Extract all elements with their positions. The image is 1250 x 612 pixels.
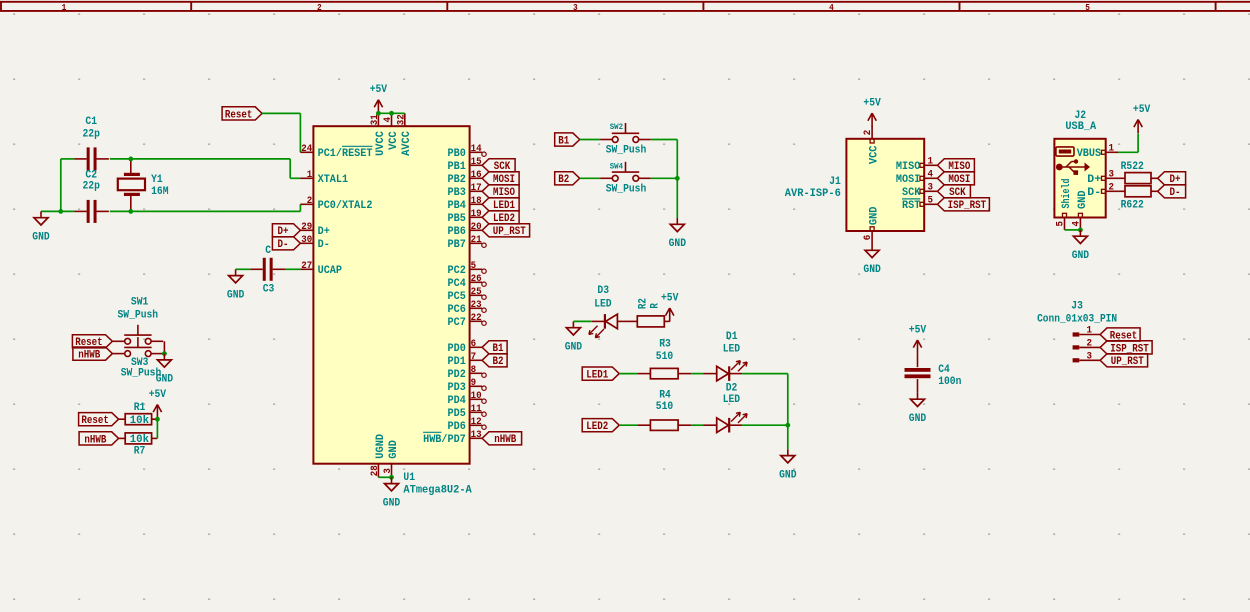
svg-text:SW_Push: SW_Push — [606, 145, 647, 157]
svg-text:UP_RST: UP_RST — [493, 226, 526, 238]
svg-text:HWB/PD7: HWB/PD7 — [423, 434, 466, 446]
svg-text:SW1: SW1 — [131, 296, 149, 308]
svg-text:PD6: PD6 — [448, 421, 466, 433]
svg-text:ISP_RST: ISP_RST — [948, 200, 987, 212]
svg-text:510: 510 — [656, 401, 673, 413]
pin 8 PD2 — [448, 365, 487, 381]
pin 30 D- — [300, 235, 329, 251]
wire — [580, 139, 601, 141]
wire — [691, 373, 703, 375]
svg-text:R: R — [650, 303, 662, 309]
wire — [290, 177, 300, 179]
pin 5 PC2 — [448, 261, 487, 277]
svg-text:15: 15 — [471, 157, 482, 168]
wire — [378, 112, 404, 114]
svg-text:19: 19 — [471, 209, 482, 220]
connector J1 AVR-ISP-6 body — [785, 139, 924, 231]
wire — [1118, 151, 1138, 153]
pin 1 XTAL1 — [300, 170, 348, 186]
pin 20 PB6 — [448, 222, 483, 238]
svg-text:1: 1 — [1087, 326, 1093, 337]
svg-text:R2: R2 — [638, 298, 650, 309]
ground SW — [156, 354, 174, 386]
svg-text:J1: J1 — [829, 176, 841, 188]
label D- — [1158, 185, 1186, 200]
svg-text:MISO: MISO — [896, 161, 921, 173]
label UP_RST — [482, 224, 529, 239]
svg-text:26: 26 — [471, 274, 482, 285]
switch SW2 — [600, 123, 651, 157]
svg-text:+5V: +5V — [661, 293, 679, 305]
wire — [742, 373, 788, 375]
svg-text:GND: GND — [388, 440, 400, 459]
svg-text:J3: J3 — [1071, 301, 1083, 313]
svg-text:XTAL1: XTAL1 — [318, 174, 349, 186]
resistor R7 — [119, 433, 158, 458]
power +5V R2 — [661, 293, 679, 322]
label Reset — [79, 413, 119, 428]
svg-text:SW_Push: SW_Push — [606, 184, 647, 196]
svg-text:GND: GND — [779, 469, 797, 481]
pin 17 PB3 — [448, 183, 483, 199]
USB plug icon — [1056, 147, 1074, 156]
svg-text:+5V: +5V — [909, 325, 927, 337]
label B2 — [482, 354, 507, 369]
svg-text:2: 2 — [307, 196, 313, 207]
svg-text:B2: B2 — [558, 174, 569, 186]
svg-text:D+: D+ — [318, 226, 331, 238]
svg-text:5: 5 — [1056, 221, 1067, 227]
label MOSI — [937, 172, 974, 187]
pin 15 PB1 — [448, 157, 483, 173]
svg-text:C3: C3 — [263, 284, 275, 296]
ground — [32, 211, 50, 243]
pin 3 J3 — [1073, 351, 1101, 362]
pin 2 D- — [1087, 182, 1118, 199]
wire — [630, 320, 637, 322]
svg-text:PD4: PD4 — [448, 395, 467, 407]
svg-text:28: 28 — [370, 465, 381, 476]
junction — [58, 209, 63, 214]
svg-text:nHWB: nHWB — [78, 350, 100, 362]
svg-text:22: 22 — [471, 313, 482, 324]
svg-text:AVR-ISP-6: AVR-ISP-6 — [785, 188, 841, 200]
capacitor C2 — [87, 200, 90, 223]
svg-text:4: 4 — [829, 3, 834, 13]
svg-text:R7: R7 — [134, 446, 146, 458]
wire — [378, 476, 391, 478]
svg-text:LED: LED — [723, 343, 741, 355]
svg-text:PB4: PB4 — [448, 200, 467, 212]
svg-text:LED2: LED2 — [586, 421, 608, 433]
svg-text:10: 10 — [471, 391, 482, 402]
crystal Y1 — [118, 159, 169, 212]
wire — [110, 210, 301, 212]
pin 2 PC0/XTAL2 — [300, 196, 372, 212]
svg-text:3: 3 — [1109, 169, 1115, 180]
svg-text:MOSI: MOSI — [896, 174, 920, 186]
svg-text:PC5: PC5 — [448, 291, 467, 303]
svg-text:21: 21 — [471, 235, 482, 246]
wire — [156, 419, 158, 438]
resistor R5 — [1118, 161, 1157, 183]
wire — [262, 112, 300, 114]
label UP_RST — [1100, 354, 1148, 369]
svg-text:7: 7 — [471, 352, 477, 363]
svg-text:8: 8 — [471, 365, 477, 376]
svg-text:Y1: Y1 — [151, 174, 163, 186]
svg-text:Reset: Reset — [225, 109, 253, 121]
svg-text:UVCC: UVCC — [375, 131, 387, 156]
svg-text:30: 30 — [301, 235, 312, 246]
label D+ — [1158, 172, 1186, 187]
svg-text:GND: GND — [32, 231, 50, 243]
wire — [651, 177, 678, 179]
wire — [651, 139, 678, 141]
junction — [1078, 228, 1083, 233]
svg-text:PB3: PB3 — [448, 187, 467, 199]
pin 6 GND — [863, 206, 881, 244]
wire — [41, 210, 74, 212]
pin 11 PD5 — [448, 404, 487, 420]
svg-text:6: 6 — [471, 339, 477, 350]
wire — [285, 268, 300, 270]
svg-text:GND: GND — [863, 264, 881, 276]
svg-text:PC1/RESET: PC1/RESET — [318, 148, 373, 160]
svg-text:11: 11 — [471, 404, 482, 415]
label D+ — [272, 224, 300, 239]
svg-text:PC6: PC6 — [448, 304, 466, 316]
svg-text:R1: R1 — [134, 402, 146, 414]
ground J2 — [1072, 230, 1090, 262]
label B1 — [482, 341, 507, 356]
pin 1 MISO — [896, 156, 937, 173]
svg-text:2: 2 — [1087, 338, 1093, 349]
svg-text:13: 13 — [471, 430, 482, 441]
junction — [785, 423, 790, 428]
svg-text:16M: 16M — [151, 186, 169, 198]
pin 9 PD3 — [448, 378, 487, 394]
wire — [299, 204, 301, 211]
junction — [675, 176, 680, 181]
svg-text:VBUS: VBUS — [1077, 148, 1102, 160]
svg-text:AVCC: AVCC — [401, 131, 413, 156]
svg-text:C1: C1 — [85, 116, 97, 128]
svg-text:GND: GND — [227, 289, 245, 301]
connector J2 USB_A body — [1054, 110, 1105, 217]
svg-text:GND: GND — [909, 413, 927, 425]
wire — [60, 159, 62, 212]
label MISO — [482, 185, 519, 200]
ground C4 — [909, 393, 927, 425]
pin 28 UGND — [370, 434, 387, 478]
label B2 — [555, 172, 580, 187]
pin 1 J3 — [1073, 326, 1101, 337]
label nHWB — [73, 347, 113, 362]
pin 4 GND — [1071, 190, 1089, 230]
pin 18 PB4 — [448, 196, 483, 212]
junction — [389, 111, 394, 116]
svg-text:GND: GND — [565, 341, 583, 353]
diode D1 LED — [704, 331, 748, 381]
pin 4 MOSI — [896, 169, 937, 186]
svg-text:U1: U1 — [403, 472, 415, 484]
svg-text:+5V: +5V — [863, 98, 881, 110]
pin 1 VBUS — [1077, 143, 1119, 160]
svg-text:23: 23 — [471, 300, 482, 311]
wire — [619, 373, 637, 375]
svg-text:2: 2 — [317, 3, 322, 13]
svg-text:PD0: PD0 — [448, 343, 466, 355]
power +5V R1 — [149, 389, 167, 418]
wire — [299, 113, 301, 152]
wire — [580, 177, 601, 179]
pin 3 GND — [383, 440, 400, 478]
power +5V C4 — [909, 325, 927, 354]
svg-text:SW_Push: SW_Push — [118, 310, 159, 322]
wire — [1137, 133, 1139, 152]
junction — [128, 209, 133, 214]
svg-text:PB5: PB5 — [448, 213, 467, 225]
svg-text:RST: RST — [902, 200, 921, 212]
pin 26 PC4 — [448, 274, 487, 290]
svg-text:Conn_01x03_PIN: Conn_01x03_PIN — [1037, 314, 1117, 326]
switch SW4 — [600, 162, 651, 196]
wire — [787, 374, 789, 450]
svg-text:ATmega8U2-A: ATmega8U2-A — [403, 484, 472, 496]
pin 29 D+ — [300, 222, 330, 238]
svg-text:LED: LED — [594, 298, 612, 310]
svg-text:31: 31 — [370, 114, 381, 125]
label ISP_RST — [937, 198, 989, 213]
pin 21 PB7 — [448, 235, 487, 251]
svg-text:1: 1 — [927, 156, 933, 167]
svg-text:GND: GND — [1077, 190, 1089, 209]
svg-text:D-: D- — [1087, 187, 1101, 199]
svg-text:PB0: PB0 — [448, 148, 466, 160]
wire — [619, 424, 637, 426]
svg-text:B2: B2 — [493, 356, 504, 368]
connector J3 Conn_01x03_PIN — [1037, 301, 1117, 326]
svg-text:GND: GND — [156, 374, 174, 386]
svg-text:R4: R4 — [659, 389, 671, 401]
svg-text:4: 4 — [927, 169, 933, 180]
svg-text:R522: R522 — [1121, 161, 1144, 173]
pin 12 PD6 — [448, 417, 487, 433]
svg-text:B1: B1 — [558, 135, 569, 147]
svg-text:Reset: Reset — [81, 415, 109, 427]
svg-text:UGND: UGND — [375, 434, 387, 459]
svg-text:D-: D- — [1170, 187, 1181, 199]
svg-text:PD5: PD5 — [448, 408, 467, 420]
svg-text:10k: 10k — [130, 434, 150, 446]
pin 25 PC5 — [448, 287, 487, 303]
label LED2 — [582, 419, 619, 434]
pin 7 PD1 — [448, 352, 483, 368]
capacitor C4 — [905, 354, 962, 393]
svg-text:4: 4 — [1071, 221, 1082, 227]
label Reset — [222, 107, 262, 122]
svg-text:2: 2 — [1109, 182, 1115, 193]
switch SW1 — [113, 296, 164, 344]
wire — [742, 424, 788, 426]
wire — [289, 159, 291, 178]
svg-text:PD3: PD3 — [448, 382, 467, 394]
svg-text:LED: LED — [723, 394, 741, 406]
wire — [110, 158, 290, 160]
label D- — [272, 237, 300, 252]
wire — [163, 341, 165, 353]
ground U1 — [383, 477, 401, 509]
svg-text:SCK: SCK — [902, 187, 921, 199]
svg-text:PB7: PB7 — [448, 239, 466, 251]
pin 19 PB5 — [448, 209, 483, 225]
svg-text:3: 3 — [927, 182, 933, 193]
svg-text:nHWB: nHWB — [494, 434, 516, 446]
resistor R2 — [637, 298, 669, 327]
wire — [573, 320, 592, 322]
switch SW3 — [113, 337, 164, 380]
svg-text:GND: GND — [1072, 250, 1090, 262]
pin 24 PC1/RESET — [300, 144, 372, 160]
svg-text:PB2: PB2 — [448, 174, 466, 186]
svg-text:SW4: SW4 — [610, 162, 623, 171]
pin 31 UVCC — [370, 113, 387, 156]
svg-text:32: 32 — [396, 114, 407, 125]
svg-text:D2: D2 — [726, 382, 738, 394]
pin 5 RST — [902, 195, 937, 212]
svg-text:VCC: VCC — [388, 131, 400, 150]
svg-text:R3: R3 — [659, 338, 671, 350]
resistor R1 — [119, 402, 158, 427]
svg-text:4: 4 — [383, 117, 394, 123]
label LED2 — [482, 211, 519, 226]
svg-text:+5V: +5V — [370, 84, 388, 96]
diode D2 LED — [704, 382, 748, 432]
svg-text:R622: R622 — [1121, 200, 1144, 212]
ground LEDs — [779, 449, 797, 481]
svg-text:Shield: Shield — [1061, 179, 1073, 209]
IC U1 ATmega8U2-A — [313, 126, 469, 464]
svg-text:C4: C4 — [938, 364, 950, 376]
svg-text:GND: GND — [669, 238, 687, 250]
svg-text:nHWB: nHWB — [84, 434, 106, 446]
capacitor C3 — [250, 245, 285, 295]
svg-text:24: 24 — [301, 144, 312, 155]
svg-text:C: C — [265, 245, 271, 257]
svg-text:+5V: +5V — [149, 389, 167, 401]
label nHWB — [482, 432, 521, 447]
label nHWB — [79, 432, 119, 447]
svg-text:12: 12 — [471, 417, 482, 428]
pin 16 PB2 — [448, 170, 483, 186]
svg-text:1: 1 — [62, 3, 67, 13]
svg-text:18: 18 — [471, 196, 482, 207]
svg-text:25: 25 — [471, 287, 482, 298]
svg-text:GND: GND — [869, 206, 881, 225]
label MOSI — [482, 172, 519, 187]
USB trident icon — [1056, 159, 1089, 175]
svg-text:5: 5 — [927, 195, 933, 206]
label LED1 — [582, 367, 619, 382]
svg-text:PB6: PB6 — [448, 226, 466, 238]
svg-text:PD2: PD2 — [448, 369, 466, 381]
svg-text:PB1: PB1 — [448, 161, 467, 173]
label ISP_RST — [1100, 341, 1152, 356]
svg-text:1: 1 — [307, 170, 313, 181]
resistor R4 — [637, 389, 691, 430]
svg-text:D1: D1 — [726, 331, 738, 343]
power +5V U1 — [370, 84, 388, 113]
wire — [1065, 229, 1081, 231]
power +5V J1 — [863, 98, 881, 127]
label MISO — [937, 159, 974, 174]
svg-text:5: 5 — [1085, 3, 1090, 13]
wire — [676, 140, 678, 219]
svg-text:3: 3 — [1087, 351, 1093, 362]
ground C3 — [227, 269, 245, 301]
svg-text:20: 20 — [471, 222, 482, 233]
ground SW2/SW4 — [669, 218, 687, 250]
resistor R6 — [1118, 186, 1157, 212]
pin 6 PD0 — [448, 339, 483, 355]
ground J1 — [863, 244, 881, 276]
pin 13 HWB/PD7 — [423, 430, 482, 446]
junction — [155, 417, 160, 422]
label Reset — [1100, 328, 1140, 343]
pin 2 J3 — [1073, 338, 1101, 349]
svg-text:22p: 22p — [83, 129, 101, 141]
pin 2 VCC — [863, 126, 881, 164]
svg-text:22p: 22p — [83, 181, 101, 193]
svg-text:510: 510 — [656, 351, 673, 363]
pin 5 Shield — [1056, 179, 1074, 230]
junction — [128, 157, 133, 162]
svg-text:PC0/XTAL2: PC0/XTAL2 — [318, 200, 373, 212]
svg-text:SW2: SW2 — [610, 123, 623, 132]
label SCK — [937, 185, 970, 200]
junction — [162, 351, 167, 356]
svg-text:6: 6 — [863, 235, 874, 241]
power +5V J2 — [1133, 104, 1151, 133]
svg-text:27: 27 — [301, 261, 312, 272]
svg-text:10k: 10k — [130, 415, 150, 427]
svg-text:LED1: LED1 — [586, 370, 608, 382]
svg-text:3: 3 — [383, 468, 394, 474]
svg-text:PC2: PC2 — [448, 265, 466, 277]
svg-text:9: 9 — [471, 378, 477, 389]
pin 4 VCC — [383, 113, 400, 150]
svg-text:16: 16 — [471, 170, 482, 181]
svg-text:USB_A: USB_A — [1065, 121, 1096, 133]
svg-text:17: 17 — [471, 183, 482, 194]
svg-text:UP_RST: UP_RST — [1111, 356, 1144, 368]
junction — [376, 111, 381, 116]
resistor R3 — [637, 338, 691, 379]
label SCK — [482, 159, 515, 174]
wire — [236, 268, 251, 270]
svg-text:100n: 100n — [938, 376, 961, 388]
label B1 — [555, 133, 580, 148]
svg-text:PC4: PC4 — [448, 278, 467, 290]
svg-text:5: 5 — [471, 261, 477, 272]
ground D3 — [565, 321, 583, 353]
diode D3 LED — [589, 285, 631, 338]
pin 22 PC7 — [448, 313, 487, 329]
svg-text:14: 14 — [471, 144, 482, 155]
svg-text:UCAP: UCAP — [318, 265, 343, 277]
svg-text:2: 2 — [863, 130, 874, 136]
